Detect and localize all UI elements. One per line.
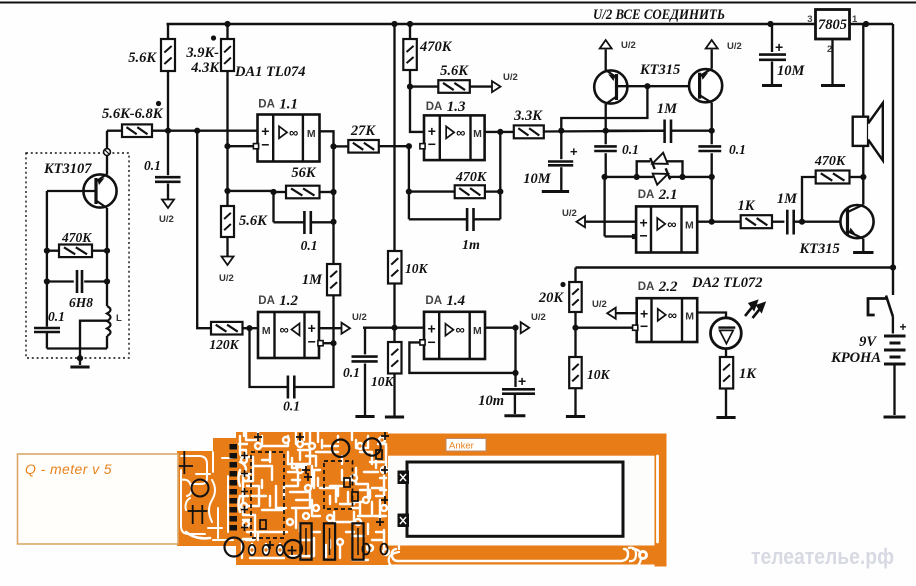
transistor KT3107 xyxy=(83,174,116,208)
wire T1 emitter to U/2 xyxy=(605,50,607,71)
wire rail to R 3.9-4.3K xyxy=(226,24,228,39)
svg-text:DA2 TL072: DA2 TL072 xyxy=(691,275,762,291)
wire 56K to 0.1fb xyxy=(272,192,274,222)
wire DA1.2 + to U/2 xyxy=(319,327,342,329)
wire R5.6-6.8K to DA1.1 + xyxy=(152,130,258,132)
wire right rail xyxy=(892,24,894,295)
svg-text:1M: 1M xyxy=(302,272,323,288)
wire 0.1fb to 1M xyxy=(332,222,334,264)
svg-text:−: − xyxy=(428,136,436,152)
capacitor 10M mid xyxy=(560,131,562,160)
svg-text:DA: DA xyxy=(258,99,275,111)
wire rail to 470K xyxy=(409,24,411,39)
PCB label box Q-meter xyxy=(18,454,179,544)
resistor 5.6K-6.8K xyxy=(122,124,152,137)
wire to diode pair xyxy=(605,176,637,178)
op-amp DA2.2 xyxy=(637,298,698,342)
svg-text:U/2: U/2 xyxy=(531,312,546,323)
inductor L coil xyxy=(107,306,111,336)
svg-text:1K: 1K xyxy=(739,366,757,382)
svg-text:M: M xyxy=(473,325,482,337)
capacitor 0.1 left xyxy=(605,131,607,145)
node DA2.2 inv xyxy=(572,325,578,331)
net U/2 arrow DA1.4 xyxy=(521,322,530,333)
svg-text:U/2: U/2 xyxy=(562,208,577,219)
node 56K branch xyxy=(224,188,230,194)
resistor 470K output xyxy=(816,171,850,184)
node fb right xyxy=(709,174,715,180)
svg-text:телеателье.рф: телеателье.рф xyxy=(751,544,894,569)
wire between 10K resistors xyxy=(393,284,395,343)
svg-text:−: − xyxy=(640,318,648,334)
PCB battery zone white xyxy=(388,456,655,546)
wire R3.9K down to R5.6K divider xyxy=(226,71,228,206)
PCB board artwork xyxy=(176,430,667,568)
svg-text:DA: DA xyxy=(638,281,655,293)
svg-text:−: − xyxy=(308,333,316,349)
resistor 5.6K to U/2 xyxy=(438,80,470,93)
node DA1.4 out xyxy=(512,325,518,331)
wire KT3107 base xyxy=(47,190,96,192)
connector probe jack xyxy=(106,131,108,149)
svg-text:6H8: 6H8 xyxy=(69,295,93,310)
wire tank bottom xyxy=(47,347,107,349)
svg-text:DA: DA xyxy=(258,295,275,307)
svg-text:U/2: U/2 xyxy=(503,72,518,83)
svg-text:∞: ∞ xyxy=(289,125,298,140)
svg-text:2.2: 2.2 xyxy=(658,279,678,295)
wire DA1.4 output xyxy=(485,327,516,329)
node 6H8 right xyxy=(104,278,110,284)
op-amp DA2.1 xyxy=(636,206,697,252)
switch lever xyxy=(886,296,893,317)
wire inv stub xyxy=(323,342,334,344)
wire 10K to gnd xyxy=(393,374,395,416)
node U/2 mid xyxy=(391,325,397,331)
node rail-out 7805 xyxy=(863,21,869,27)
svg-text:10K: 10K xyxy=(405,261,429,276)
svg-text:Q - meter v 5: Q - meter v 5 xyxy=(25,462,112,477)
wire U/2 node to DA1.4 + xyxy=(363,327,424,329)
node 6H8 left xyxy=(44,278,50,284)
wire signal to 120K xyxy=(197,131,211,329)
resistor 27K xyxy=(348,140,379,153)
svg-text:−: − xyxy=(428,334,436,350)
svg-text:U/2: U/2 xyxy=(219,273,234,284)
node 470K left xyxy=(44,248,50,254)
svg-text:0.1: 0.1 xyxy=(622,142,639,157)
capacitor 1M coupling xyxy=(606,130,665,132)
ground divider xyxy=(385,416,404,419)
wire cap to gnd xyxy=(364,364,366,416)
resistor 5.6K top-left xyxy=(161,39,175,71)
svg-text:3: 3 xyxy=(807,14,812,25)
svg-text:M: M xyxy=(262,325,271,337)
op-amp DA1.3 xyxy=(424,115,485,160)
wire T3 emitter xyxy=(862,239,864,251)
wire 3.3K to 1M cap xyxy=(544,130,665,133)
node rail-470K xyxy=(407,21,413,27)
net U/2 arrow T2 xyxy=(706,40,718,49)
capacitor 0.1 tank xyxy=(34,328,60,332)
svg-text:2.1: 2.1 xyxy=(658,187,678,203)
resistor 56K xyxy=(286,186,320,199)
svg-text:M: M xyxy=(307,128,316,140)
svg-text:0.1: 0.1 xyxy=(301,238,318,253)
marker dot 5.6-6.8K xyxy=(156,101,161,106)
marker dot 3.9K xyxy=(211,35,216,40)
node rail-R2 xyxy=(224,21,230,27)
node DA1.1 inv input xyxy=(224,143,230,149)
node 0.1fb right xyxy=(330,219,336,225)
svg-text:∞: ∞ xyxy=(280,322,289,337)
wire cap to T3 base xyxy=(794,221,848,223)
wire 20K to 10K xyxy=(574,312,576,357)
PCB Anker label xyxy=(446,439,486,452)
switch power xyxy=(868,299,887,316)
node 56K right xyxy=(330,189,336,195)
ground 0.1 xyxy=(355,415,374,418)
resistor 3.3K xyxy=(514,125,544,138)
wire to 0.1 gnd cap xyxy=(364,328,366,355)
wire out to 27K xyxy=(334,145,349,147)
ground 10K xyxy=(566,415,585,418)
svg-text:10M: 10M xyxy=(523,171,552,187)
wire feedback branch xyxy=(332,146,334,221)
svg-text:M: M xyxy=(473,128,482,140)
svg-text:KT315: KT315 xyxy=(639,62,680,78)
svg-text:7805: 7805 xyxy=(818,17,847,33)
node 470Kfb right xyxy=(497,189,503,195)
pin DA2.2 inv xyxy=(633,325,638,330)
svg-text:0.1: 0.1 xyxy=(343,365,360,380)
capacitor 6H8 xyxy=(47,280,74,282)
wire top border line xyxy=(0,2,916,4)
svg-text:3.9K-: 3.9K- xyxy=(185,45,219,61)
wire out down xyxy=(514,328,516,387)
svg-text:∞: ∞ xyxy=(455,322,464,337)
node T1 collector xyxy=(603,128,609,134)
svg-text:10M: 10M xyxy=(777,63,806,79)
wire 10K to gnd xyxy=(574,388,576,415)
wire divider to 56K xyxy=(228,190,274,192)
wire probe to R5.6-6.8K xyxy=(107,130,122,132)
svg-text:5.6K-6.8K: 5.6K-6.8K xyxy=(102,106,164,122)
node DA1.3 inv xyxy=(406,143,412,149)
resistor 20K xyxy=(569,282,582,312)
svg-text:10m: 10m xyxy=(478,393,504,409)
svg-text:1: 1 xyxy=(852,14,858,25)
wire node to cap 0.1 xyxy=(167,131,169,176)
wire bus to 20K xyxy=(574,268,576,283)
svg-text:Anker: Anker xyxy=(449,441,474,452)
wire 470K to DA1.3 + xyxy=(410,70,424,132)
svg-text:0.1: 0.1 xyxy=(144,158,161,173)
svg-text:1K: 1K xyxy=(738,198,756,214)
probe dashed enclosure xyxy=(26,153,129,358)
wire rail to R 5.6K xyxy=(167,24,169,39)
wire 1K to gnd xyxy=(725,389,727,417)
svg-text:1M: 1M xyxy=(777,191,798,207)
pin DA1.4 inv xyxy=(420,340,425,345)
svg-text:470K: 470K xyxy=(419,39,453,55)
LED arrows xyxy=(745,302,764,319)
wire battery to gnd xyxy=(893,364,895,415)
wire cap to U/2 arrow xyxy=(167,184,169,200)
wire feedback left leg xyxy=(408,146,410,219)
PCB left arm components xyxy=(192,480,209,497)
resistor 470K feedback xyxy=(455,185,485,198)
resistor 5.6K divider xyxy=(221,206,234,237)
node 56K left xyxy=(270,189,276,195)
node rail-R470K branch A xyxy=(391,21,397,27)
svg-text:L: L xyxy=(116,313,122,324)
svg-text:5.6K: 5.6K xyxy=(440,63,469,79)
node DA1.2 branch xyxy=(194,128,200,134)
ground 10m xyxy=(504,414,525,417)
wire T1 base to T2 base xyxy=(618,85,700,87)
node fb join xyxy=(512,370,518,376)
wire T3 collector xyxy=(862,177,864,205)
svg-text:3.3K: 3.3K xyxy=(513,108,543,124)
capacitor 10M supply xyxy=(771,24,773,52)
svg-text:4.3K: 4.3K xyxy=(190,60,220,76)
capacitor 0.1 at input xyxy=(155,177,181,182)
PCB traces main block xyxy=(240,436,255,539)
svg-text:5.6K: 5.6K xyxy=(239,213,268,229)
capacitor 1M coupling 2 xyxy=(787,210,793,235)
net U/2 arrow DA1.2 xyxy=(342,323,351,334)
wire U2 rail branch down xyxy=(393,24,395,251)
op-amp DA1.1 xyxy=(258,115,320,162)
transistor KT315 T2 xyxy=(689,69,722,103)
capacitor 0.1 right xyxy=(711,131,713,145)
svg-text:120K: 120K xyxy=(209,337,239,352)
wire DA1.3 output xyxy=(485,131,514,133)
PCB traces bottom band xyxy=(392,549,628,561)
wire to 0.1 tank cap xyxy=(46,282,48,327)
svg-text:−: − xyxy=(639,228,647,244)
wire fb to 470K xyxy=(802,177,816,222)
svg-text:56K: 56K xyxy=(291,165,317,181)
node 470K fb xyxy=(799,219,805,225)
node 470K right xyxy=(104,248,110,254)
net U/2 arrow under 0.1 xyxy=(162,200,174,209)
pin DA1.3 inv xyxy=(420,144,425,149)
svg-text:DA: DA xyxy=(638,189,655,201)
node T2 collector xyxy=(709,128,715,134)
wire +9V rail xyxy=(167,23,816,25)
svg-text:U/2: U/2 xyxy=(352,312,367,323)
svg-text:470K: 470K xyxy=(61,230,92,245)
svg-text:U/2: U/2 xyxy=(159,214,174,225)
PCB battery black box xyxy=(407,462,623,536)
svg-text:0.1: 0.1 xyxy=(283,399,300,414)
resistor 3.9K-4.3K xyxy=(221,39,234,71)
node 5.6K U2 branch xyxy=(407,84,413,90)
svg-text:U/2 ВСЕ СОЕДИНИТЬ: U/2 ВСЕ СОЕДИНИТЬ xyxy=(593,7,725,23)
svg-text:U/2: U/2 xyxy=(592,299,607,310)
wire to 6H8 xyxy=(46,251,48,282)
node tank gnd xyxy=(77,355,83,361)
wire inv input DA1.1 xyxy=(228,145,254,147)
svg-text:+: + xyxy=(518,373,526,389)
svg-text:1.2: 1.2 xyxy=(279,293,298,309)
transistor KT315 T3 xyxy=(840,205,873,239)
svg-text:+: + xyxy=(570,144,578,159)
LED indicator xyxy=(711,318,742,349)
node collector xyxy=(860,174,866,180)
op-amp DA1.4 xyxy=(424,312,485,359)
svg-text:20K: 20K xyxy=(538,290,565,306)
resistor 1M xyxy=(327,264,340,295)
wire T1 collector xyxy=(605,104,607,131)
ground T3 xyxy=(853,251,873,254)
svg-text:1M: 1M xyxy=(657,101,678,117)
pin DA2.1 inv square xyxy=(632,234,637,239)
wire DA1.1 output xyxy=(320,131,334,146)
resistor 1K xyxy=(741,215,772,228)
net U/2 arrow DA2.2 xyxy=(607,308,616,319)
wire rail to speaker xyxy=(862,24,864,117)
node diode right xyxy=(679,174,685,180)
svg-text:∞: ∞ xyxy=(456,125,465,140)
resistor 120K xyxy=(211,322,243,335)
diode pair anti-parallel xyxy=(637,161,650,177)
pin DA1.1 inv xyxy=(253,144,258,149)
wire 120K to DA1.2 out xyxy=(243,327,259,329)
wire divider to U/2 xyxy=(226,237,228,256)
pin DA1.2 inv square xyxy=(318,341,323,346)
resistor 10K upper xyxy=(388,251,402,284)
wire DA1.4 feedback xyxy=(409,342,515,373)
svg-text:1.4: 1.4 xyxy=(446,293,465,309)
wire DA2.1 output xyxy=(697,221,741,223)
capacitor 1m feedback xyxy=(409,218,467,220)
ground tank xyxy=(70,366,89,369)
svg-text:9V: 9V xyxy=(859,334,877,350)
battery 9V KRONA xyxy=(884,335,906,338)
capacitor 0.1 feedback DA1.1 xyxy=(274,221,305,223)
wire 470K to collector xyxy=(850,176,864,178)
svg-text:27K: 27K xyxy=(350,123,377,139)
node rail-10M xyxy=(767,21,773,27)
svg-text:5.6K: 5.6K xyxy=(128,50,157,66)
wire diode to fb node xyxy=(683,176,712,178)
wire feedback right leg xyxy=(499,132,501,219)
PCB traces left arm xyxy=(181,456,207,484)
svg-text:U/2: U/2 xyxy=(621,40,636,51)
svg-text:0.1: 0.1 xyxy=(729,142,746,157)
wire 1M to inv node xyxy=(332,295,334,343)
svg-text:470K: 470K xyxy=(455,170,488,185)
node 0.1 cap branch xyxy=(165,128,171,134)
svg-text:0.1: 0.1 xyxy=(48,309,65,324)
wire U/2 to DA2.2 + xyxy=(615,312,637,314)
net U/2 arrow right xyxy=(492,81,501,92)
node 470Kfb left xyxy=(406,189,412,195)
svg-text:1m: 1m xyxy=(462,238,480,253)
wire DA2.2 out to LED xyxy=(697,313,726,319)
wire switch to battery xyxy=(892,317,894,334)
net U/2 arrow T1 xyxy=(600,40,612,49)
regulator 7805 xyxy=(816,10,850,40)
svg-text:DA: DA xyxy=(426,101,443,113)
node diode left xyxy=(634,174,640,180)
transistor KT315 T1 xyxy=(594,70,627,104)
wire diode node to inv xyxy=(603,177,605,237)
resistor 470K probe xyxy=(59,245,92,258)
wire U/2 to DA2.1 + xyxy=(584,221,636,223)
svg-text:+: + xyxy=(775,39,783,55)
svg-text:1.3: 1.3 xyxy=(447,99,466,115)
node 10M cap branch xyxy=(558,128,564,134)
wire base net to signal xyxy=(561,86,647,131)
resistor 10K lower xyxy=(388,342,402,374)
capacitor 0.1 feedback DA1.2 xyxy=(250,328,288,387)
wire 7805 gnd pin xyxy=(831,39,833,84)
node base join xyxy=(644,83,650,89)
wire base rail down xyxy=(46,191,48,251)
resistor 10K right xyxy=(569,357,582,388)
wire rail 7805 to right xyxy=(850,23,894,25)
PCB battery contacts xyxy=(398,471,410,485)
svg-text:∞: ∞ xyxy=(668,307,677,322)
svg-text:∞: ∞ xyxy=(667,216,676,231)
svg-text:10K: 10K xyxy=(371,374,395,389)
wire 1K to 1M cap xyxy=(772,221,784,223)
wire R5.6K to signal node xyxy=(167,71,169,131)
node U2 bus right xyxy=(890,264,896,270)
svg-text:M: M xyxy=(685,310,694,322)
wire 27K to DA1.3 inv xyxy=(379,145,409,147)
marker dot 20K xyxy=(560,282,565,287)
wire KT3107 collector down to coil xyxy=(106,208,108,306)
wire tank to gnd xyxy=(79,349,81,366)
wire coil bottom xyxy=(106,336,108,349)
node DA1.2 output xyxy=(246,325,252,331)
wire LED to 1K xyxy=(725,349,727,357)
svg-text:KT315: KT315 xyxy=(799,241,840,257)
net U/2 arrow DA2.1 xyxy=(577,216,586,227)
svg-text:DA: DA xyxy=(425,295,442,307)
svg-text:470K: 470K xyxy=(814,154,847,169)
wire speaker to collector node xyxy=(862,146,864,177)
node diode row left xyxy=(602,174,608,180)
svg-text:1.1: 1.1 xyxy=(279,97,298,113)
svg-text:DA1 TL074: DA1 TL074 xyxy=(234,64,305,80)
net U/2 arrow below divider xyxy=(222,257,234,266)
node DA1.3 out xyxy=(497,129,503,135)
op-amp DA1.2 mirrored xyxy=(258,312,319,358)
node DA1.2 inv xyxy=(330,340,336,346)
svg-text:КРОНА: КРОНА xyxy=(830,350,881,366)
resistor 1K LED xyxy=(720,357,733,389)
svg-text:10K: 10K xyxy=(587,367,611,382)
svg-text:KT3107: KT3107 xyxy=(43,161,92,177)
wire U2 bus xyxy=(576,266,892,268)
wire inv input DA2.2 xyxy=(576,327,633,329)
wire T2 emitter to U/2 xyxy=(711,50,713,69)
svg-text:−: − xyxy=(261,136,269,152)
node output fb xyxy=(709,219,715,225)
wire jack to KT3107 emitter xyxy=(106,155,108,174)
node DA1.1 out xyxy=(330,143,336,149)
ground LED xyxy=(716,416,735,419)
ground battery xyxy=(884,416,906,419)
wire 5.6K to arrow xyxy=(470,85,493,87)
resistor 470K bias xyxy=(403,39,417,70)
